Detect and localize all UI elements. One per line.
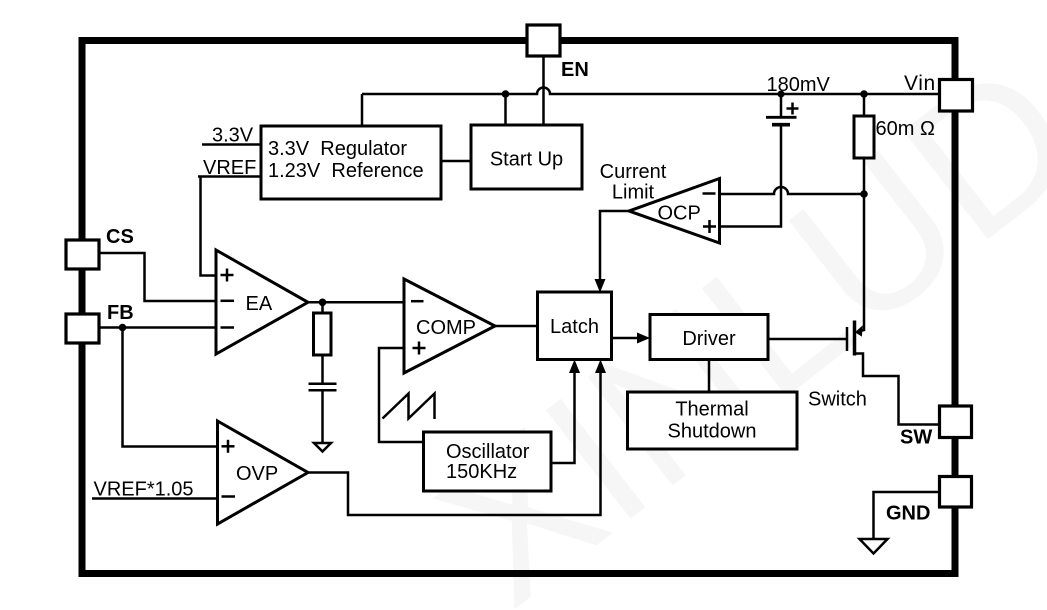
svg-text:60m Ω: 60m Ω: [876, 118, 935, 140]
svg-text:OVP: OVP: [236, 463, 278, 485]
svg-text:180mV: 180mV: [767, 74, 831, 96]
svg-text:1.23V Reference: 1.23V Reference: [268, 160, 424, 182]
svg-text:Start Up: Start Up: [490, 149, 563, 171]
svg-text:EA: EA: [246, 293, 273, 315]
svg-text:Shutdown: Shutdown: [668, 421, 757, 443]
svg-text:EN: EN: [561, 59, 589, 81]
svg-text:150KHz: 150KHz: [446, 461, 517, 483]
svg-text:CS: CS: [106, 226, 134, 248]
svg-text:Vin: Vin: [904, 72, 936, 95]
svg-text:OCP: OCP: [658, 203, 701, 225]
svg-text:VREF*1.05: VREF*1.05: [94, 479, 194, 501]
svg-text:SW: SW: [900, 427, 932, 449]
svg-text:GND: GND: [886, 503, 930, 525]
svg-text:Thermal: Thermal: [675, 399, 748, 421]
svg-text:COMP: COMP: [416, 317, 476, 339]
svg-text:VREF: VREF: [203, 157, 256, 179]
svg-text:Switch: Switch: [808, 389, 867, 411]
svg-text:FB: FB: [107, 302, 134, 324]
svg-text:3.3V: 3.3V: [212, 125, 254, 147]
svg-text:Limit: Limit: [612, 182, 655, 204]
svg-text:Current: Current: [600, 161, 667, 183]
svg-text:3.3V Regulator: 3.3V Regulator: [268, 138, 407, 160]
svg-text:Driver: Driver: [682, 328, 736, 350]
svg-text:Oscillator: Oscillator: [446, 441, 530, 463]
svg-text:Latch: Latch: [550, 316, 599, 338]
